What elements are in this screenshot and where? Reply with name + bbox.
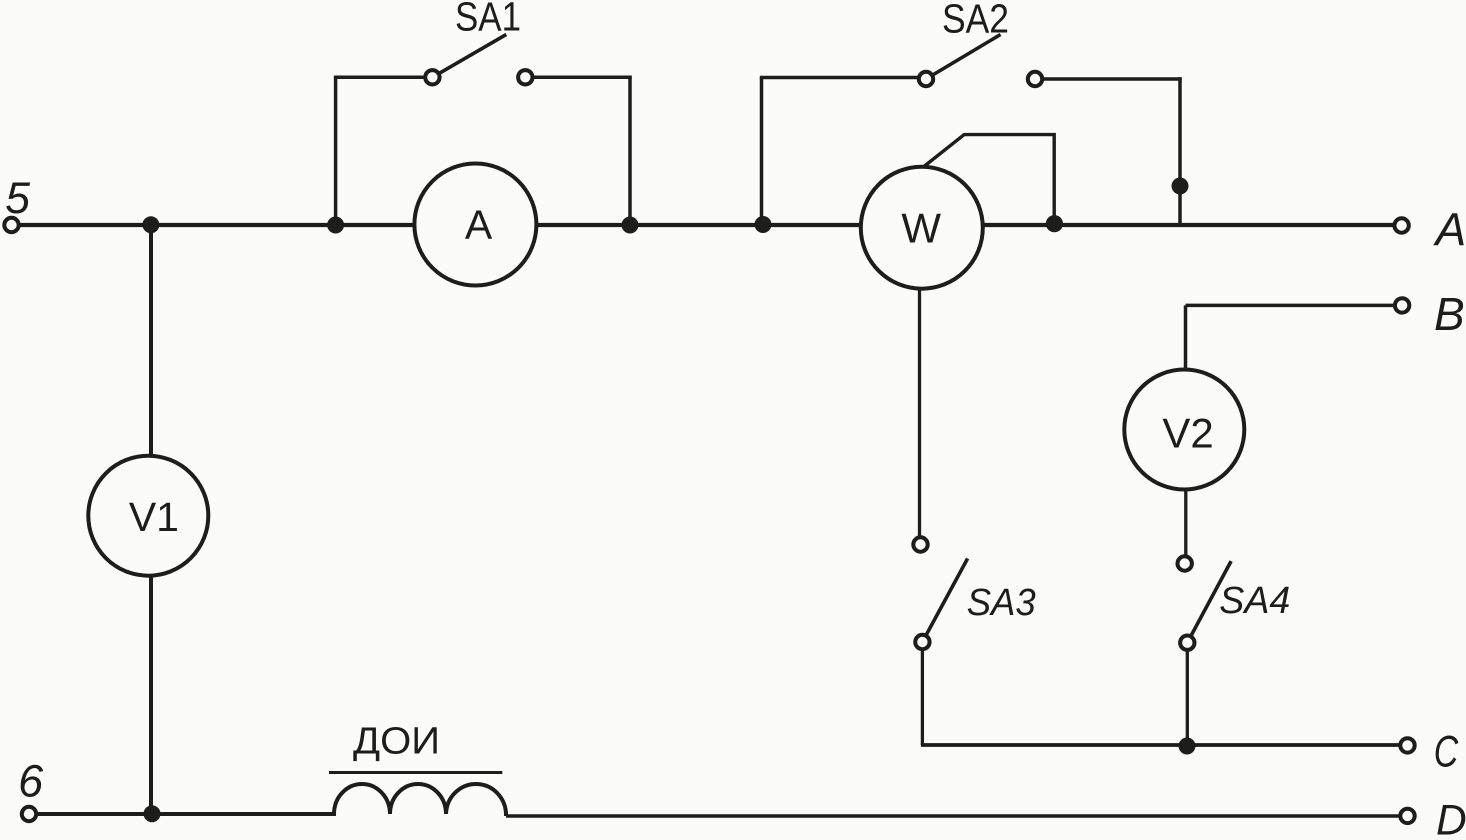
svg-text:5: 5 (5, 174, 30, 223)
switch SA1 lever (432, 34, 506, 77)
inductor ДОИ (3 loops) (334, 784, 506, 816)
wire: SA1 bypass right vertical (628, 76, 632, 225)
svg-text:V1: V1 (129, 494, 179, 540)
svg-text:SA1: SA1 (455, 0, 521, 39)
switch SA3 contact circle top (913, 537, 927, 551)
switch SA3 contact circle bottom (915, 635, 929, 649)
terminal 6 (22, 807, 36, 821)
voltmeter V1 (88, 456, 208, 576)
wire: V2 bottom lead (1184, 478, 1187, 558)
switch SA2 contact circle right (1028, 72, 1042, 86)
junction: SA2 bypass left (755, 216, 772, 233)
svg-text:B: B (1434, 288, 1465, 340)
terminal B (1395, 298, 1409, 312)
terminal C (1400, 738, 1414, 752)
switch SA3 lever (922, 559, 967, 643)
wire: SA2 bypass right vertical (1178, 77, 1182, 225)
junction: V1 tap on bottom net (144, 805, 161, 822)
svg-text:A: A (1433, 204, 1466, 256)
switch SA4 contact circle bottom (1180, 636, 1194, 650)
junction: V1 tap on main net (142, 216, 159, 233)
svg-text:6: 6 (18, 756, 44, 807)
junction: W voltage coil tap (1046, 215, 1063, 232)
junction: SA4 tap on C net (1179, 738, 1196, 755)
wire: bottom net from terminal 6 to inductor (37, 812, 336, 816)
overline of ДОИ label (329, 771, 502, 774)
wire: wattmeter W voltage-coil top branch (917, 135, 1054, 225)
wire: C net horizontal to terminal C (921, 743, 1400, 747)
switch SA4 contact circle top (1178, 556, 1192, 570)
svg-text:ДОИ: ДОИ (353, 721, 440, 763)
wire: wattmeter W bottom lead to SA3 (918, 280, 921, 538)
junction: SA1 bypass left (327, 217, 344, 234)
wire: SA4 to C-line vertical (1186, 643, 1189, 746)
wire: SA3 to C-line vertical (921, 642, 924, 745)
voltmeter V2 (1124, 370, 1244, 490)
wattmeter W (861, 167, 983, 289)
ammeter A (414, 164, 536, 286)
switch SA2 lever (926, 35, 1001, 80)
wire: SA1 bypass top-right horizontal (533, 76, 632, 80)
switch SA2 contact circle left (919, 72, 933, 86)
switch SA1 contact circle right (518, 70, 532, 84)
wire: SA1 bypass top-left horizontal (334, 76, 424, 80)
wire: SA2 bypass left vertical (760, 78, 764, 225)
switch SA1 contact circle left (425, 70, 439, 84)
terminal D (1400, 809, 1414, 823)
wire: vertical branch to voltmeter V1 (149, 225, 153, 814)
svg-text:SA3: SA3 (967, 582, 1036, 624)
svg-text:W: W (901, 205, 941, 252)
svg-text:SA4: SA4 (1219, 580, 1290, 622)
wire: B net horizontal from terminal B (1186, 304, 1395, 308)
wire: main net from terminal 5 to terminal A (19, 223, 1394, 227)
svg-text:C: C (1434, 728, 1459, 777)
terminal 5 (4, 218, 18, 232)
switch SA4 lever (1187, 561, 1231, 643)
junction: SA1 bypass right (622, 217, 639, 234)
svg-text:A: A (465, 202, 493, 248)
terminal A (1394, 218, 1408, 232)
svg-text:SA2: SA2 (942, 0, 1009, 42)
svg-text:V2: V2 (1162, 410, 1213, 457)
wire: SA1 bypass left vertical (334, 77, 338, 225)
wire: SA2 bypass top-left horizontal (760, 76, 918, 80)
junction: on SA2 bypass right vertical (1172, 178, 1189, 195)
svg-text:D: D (1436, 798, 1466, 840)
wire: bottom net from inductor to terminal D (506, 814, 1400, 818)
wire: SA2 bypass top-right horizontal (1042, 77, 1182, 81)
wire: B net vertical down to voltmeter V2 (1184, 305, 1188, 380)
